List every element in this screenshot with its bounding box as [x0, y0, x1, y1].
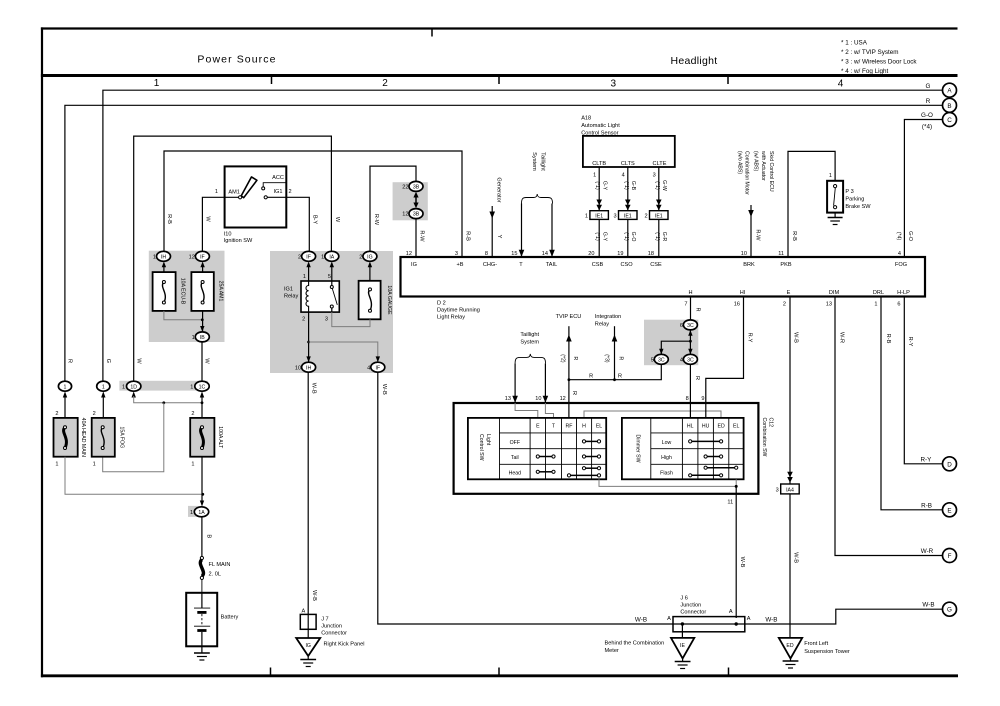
svg-text:A: A	[667, 616, 671, 622]
svg-text:Battery: Battery	[221, 614, 239, 620]
svg-text:BRK: BRK	[743, 262, 755, 268]
svg-text:1: 1	[191, 461, 194, 467]
svg-text:R: R	[589, 373, 593, 379]
svg-text:with Actuator: with Actuator	[760, 151, 766, 181]
svg-text:R-Y: R-Y	[920, 456, 932, 463]
svg-text:HU: HU	[702, 424, 710, 430]
svg-text:R-B: R-B	[166, 214, 172, 224]
svg-text:W: W	[135, 358, 141, 364]
svg-text:F: F	[948, 553, 952, 560]
svg-text:* 2 : w/ TVIP System: * 2 : w/ TVIP System	[841, 49, 899, 56]
svg-text:IB: IB	[200, 335, 205, 341]
svg-text:16: 16	[734, 302, 740, 308]
svg-text:I10: I10	[224, 232, 232, 238]
svg-text:Junction: Junction	[680, 602, 701, 608]
svg-text:Relay: Relay	[284, 293, 299, 299]
svg-text:RF: RF	[566, 424, 573, 430]
svg-text:25A AM1: 25A AM1	[217, 281, 223, 302]
svg-text:2: 2	[783, 302, 786, 308]
svg-text:4: 4	[622, 173, 625, 179]
svg-text:Y: Y	[496, 235, 502, 239]
svg-text:12: 12	[402, 212, 408, 218]
svg-text:IG: IG	[367, 254, 372, 260]
svg-text:R-Y: R-Y	[907, 337, 913, 347]
svg-text:2: 2	[191, 411, 194, 417]
svg-text:W: W	[204, 358, 210, 364]
svg-text:IF: IF	[200, 254, 205, 260]
svg-text:CSB: CSB	[592, 262, 604, 268]
svg-text:13: 13	[826, 302, 832, 308]
svg-text:3: 3	[455, 251, 458, 257]
svg-text:4: 4	[898, 251, 901, 257]
svg-text:OFF: OFF	[510, 440, 520, 446]
svg-text:R-Y: R-Y	[746, 333, 752, 343]
svg-text:Daytime Running: Daytime Running	[437, 308, 480, 314]
svg-text:1: 1	[64, 384, 67, 390]
svg-text:HL: HL	[687, 424, 694, 430]
svg-text:FOG: FOG	[895, 262, 907, 268]
svg-text:Meter: Meter	[605, 648, 619, 654]
svg-text:AM1: AM1	[228, 189, 240, 195]
svg-text:2. 0L: 2. 0L	[209, 572, 221, 578]
svg-text:6: 6	[897, 302, 900, 308]
svg-text:10: 10	[741, 251, 747, 257]
svg-text:R-W: R-W	[373, 214, 379, 226]
svg-text:CSE: CSE	[650, 262, 662, 268]
svg-text:W-R: W-R	[921, 548, 934, 555]
svg-text:5: 5	[328, 274, 331, 280]
svg-text:3: 3	[776, 488, 779, 494]
svg-text:R: R	[572, 357, 578, 361]
svg-text:J 6: J 6	[680, 595, 687, 601]
svg-text:Dimmer SW: Dimmer SW	[635, 435, 641, 463]
svg-text:Generator: Generator	[495, 177, 501, 202]
svg-text:1: 1	[192, 335, 195, 341]
svg-text:G-Y: G-Y	[601, 232, 607, 242]
svg-text:1A: 1A	[198, 510, 205, 516]
svg-text:Behind the Combination: Behind the Combination	[605, 641, 665, 647]
svg-text:Taillight: Taillight	[520, 332, 539, 338]
svg-text:IA: IA	[329, 254, 334, 260]
svg-text:CLTB: CLTB	[592, 161, 606, 167]
svg-text:CLTE: CLTE	[653, 161, 667, 167]
svg-text:R: R	[571, 391, 577, 395]
svg-text:G-O: G-O	[921, 112, 933, 119]
svg-text:(*1): (*1)	[623, 232, 629, 241]
svg-text:(*4): (*4)	[922, 124, 932, 131]
svg-text:IA4: IA4	[786, 488, 794, 494]
svg-text:H: H	[688, 290, 692, 296]
svg-text:(*1): (*1)	[654, 232, 660, 241]
svg-text:4: 4	[367, 365, 370, 371]
svg-text:22: 22	[402, 185, 408, 191]
svg-text:P 3: P 3	[845, 189, 853, 195]
svg-text:(*1): (*1)	[594, 181, 600, 190]
svg-text:(w/o ABS): (w/o ABS)	[736, 151, 742, 174]
svg-text:100A ALT: 100A ALT	[217, 426, 223, 449]
svg-text:B: B	[947, 103, 951, 110]
svg-text:W: W	[205, 216, 211, 222]
svg-text:1: 1	[585, 213, 588, 219]
svg-text:1: 1	[190, 384, 193, 390]
svg-text:CHG-: CHG-	[483, 262, 497, 268]
svg-text:R: R	[618, 373, 622, 379]
svg-text:Taillight: Taillight	[539, 152, 545, 171]
svg-text:FL MAIN: FL MAIN	[209, 562, 231, 568]
svg-text:B: B	[206, 534, 212, 538]
svg-text:A: A	[747, 616, 751, 622]
svg-text:W-B: W-B	[739, 557, 745, 568]
svg-text:Connector: Connector	[680, 609, 706, 615]
svg-text:IE: IE	[680, 643, 685, 649]
svg-text:H: H	[582, 424, 586, 430]
svg-text:* 4 : w/ Fog Light: * 4 : w/ Fog Light	[841, 68, 889, 75]
svg-text:9: 9	[701, 396, 704, 402]
svg-text:Headlight: Headlight	[670, 55, 717, 67]
svg-text:R-W: R-W	[755, 229, 761, 241]
svg-text:Skid Control ECU: Skid Control ECU	[768, 151, 774, 192]
svg-text:* 3 : w/ Wireless Door Lock: * 3 : w/ Wireless Door Lock	[841, 59, 917, 66]
svg-text:E: E	[536, 424, 540, 430]
svg-text:G-O: G-O	[630, 232, 636, 242]
svg-text:W-B: W-B	[311, 590, 317, 601]
svg-text:12: 12	[560, 396, 566, 402]
svg-text:D 2: D 2	[437, 301, 446, 307]
svg-text:G: G	[926, 83, 931, 90]
svg-text:19: 19	[617, 251, 623, 257]
svg-text:R-B: R-B	[791, 231, 797, 241]
svg-text:Combination SW: Combination SW	[761, 418, 767, 457]
svg-text:PKB: PKB	[780, 262, 791, 268]
svg-text:8: 8	[485, 251, 488, 257]
svg-text:2: 2	[359, 254, 362, 260]
svg-text:Junction: Junction	[321, 624, 342, 630]
svg-text:TAIL: TAIL	[546, 262, 557, 268]
svg-text:1: 1	[593, 173, 596, 179]
svg-text:(*4): (*4)	[895, 232, 901, 241]
svg-text:Flash: Flash	[660, 470, 673, 476]
svg-text:W-B: W-B	[765, 616, 777, 623]
svg-text:3: 3	[613, 213, 616, 219]
svg-text:3: 3	[325, 317, 328, 323]
svg-text:A18: A18	[581, 116, 591, 122]
svg-text:System: System	[520, 340, 539, 346]
svg-text:(*3): (*3)	[604, 354, 610, 363]
svg-text:D: D	[947, 461, 952, 468]
svg-text:G-W: G-W	[661, 180, 667, 191]
svg-text:G-Y: G-Y	[601, 181, 607, 191]
svg-text:IG: IG	[411, 262, 417, 268]
svg-text:20: 20	[588, 251, 594, 257]
svg-text:7: 7	[684, 302, 687, 308]
svg-text:2: 2	[93, 411, 96, 417]
svg-text:Suspension Tower: Suspension Tower	[804, 649, 850, 655]
svg-text:3B: 3B	[413, 212, 420, 218]
svg-text:EL: EL	[596, 424, 602, 430]
svg-text:C: C	[947, 117, 952, 124]
svg-text:Right Kick Panel: Right Kick Panel	[324, 642, 365, 648]
svg-text:R-W: R-W	[419, 230, 425, 242]
svg-text:W: W	[334, 217, 340, 223]
svg-text:E: E	[787, 290, 791, 296]
svg-text:12: 12	[406, 251, 412, 257]
svg-text:1: 1	[874, 302, 877, 308]
svg-text:15A FOG: 15A FOG	[118, 426, 124, 448]
svg-text:1: 1	[122, 384, 125, 390]
svg-text:10A GAUGE: 10A GAUGE	[386, 285, 392, 315]
svg-text:1: 1	[153, 254, 156, 260]
svg-text:(w/ ABS): (w/ ABS)	[752, 151, 758, 171]
svg-text:R-B: R-B	[885, 334, 891, 344]
svg-text:Low: Low	[662, 440, 672, 446]
svg-text:2: 2	[289, 189, 292, 195]
svg-text:IF: IF	[306, 254, 311, 260]
svg-text:Combination Motor: Combination Motor	[744, 151, 750, 195]
svg-text:W-B: W-B	[793, 332, 799, 343]
svg-text:J 7: J 7	[321, 617, 328, 623]
svg-text:IG: IG	[305, 643, 310, 649]
svg-text:40A HEAD MAIN: 40A HEAD MAIN	[80, 418, 86, 457]
svg-text:Light: Light	[485, 434, 491, 446]
svg-text:T: T	[519, 262, 523, 268]
svg-text:IE1: IE1	[595, 213, 603, 219]
svg-text:10: 10	[295, 365, 301, 371]
svg-text:Connector: Connector	[321, 631, 347, 637]
svg-text:1C: 1C	[199, 384, 206, 390]
svg-text:1D: 1D	[130, 384, 137, 390]
svg-text:W-B: W-B	[793, 552, 799, 563]
svg-text:ED: ED	[786, 643, 793, 649]
svg-text:14: 14	[542, 251, 548, 257]
svg-text:(*2): (*2)	[560, 354, 566, 363]
svg-text:12: 12	[189, 254, 195, 260]
svg-text:DRL: DRL	[873, 290, 884, 296]
svg-text:11: 11	[778, 251, 784, 257]
svg-text:R-B: R-B	[921, 502, 932, 509]
svg-text:Integration: Integration	[595, 314, 621, 320]
svg-text:DIM: DIM	[829, 290, 840, 296]
svg-text:CSO: CSO	[620, 262, 633, 268]
svg-text:2: 2	[302, 317, 305, 323]
svg-text:High: High	[661, 455, 672, 461]
svg-text:Brake SW: Brake SW	[845, 204, 871, 210]
svg-text:Ignition SW: Ignition SW	[224, 238, 253, 244]
svg-text:4: 4	[838, 79, 844, 90]
svg-text:1: 1	[303, 274, 306, 280]
svg-text:15: 15	[511, 251, 517, 257]
svg-text:2: 2	[298, 254, 301, 260]
svg-text:1: 1	[154, 78, 160, 89]
svg-text:2: 2	[644, 213, 647, 219]
svg-text:C12: C12	[768, 418, 774, 428]
svg-text:W-B: W-B	[381, 384, 387, 395]
svg-text:IE1: IE1	[655, 213, 663, 219]
svg-text:10: 10	[535, 396, 541, 402]
svg-text:8: 8	[686, 396, 689, 402]
svg-text:Light Relay: Light Relay	[437, 315, 465, 321]
svg-text:E: E	[947, 507, 951, 514]
svg-text:ACC: ACC	[272, 175, 284, 181]
svg-text:Control SW: Control SW	[478, 434, 484, 461]
svg-text:2: 2	[382, 78, 388, 89]
svg-text:11: 11	[727, 500, 733, 506]
svg-text:R: R	[694, 307, 700, 311]
svg-text:R: R	[67, 359, 73, 363]
svg-text:+B: +B	[457, 262, 464, 268]
svg-text:TVIP ECU: TVIP ECU	[556, 314, 582, 320]
svg-text:Tail: Tail	[511, 455, 519, 461]
svg-text:G-B: G-B	[630, 181, 636, 191]
svg-text:3: 3	[653, 173, 656, 179]
svg-text:1: 1	[829, 173, 832, 179]
svg-text:W-B: W-B	[635, 616, 647, 623]
svg-text:IE1: IE1	[624, 213, 632, 219]
svg-text:R: R	[617, 357, 623, 361]
svg-text:Parking: Parking	[845, 197, 864, 203]
svg-text:3B: 3B	[413, 185, 420, 191]
svg-text:2: 2	[55, 411, 58, 417]
svg-text:W-R: W-R	[839, 332, 845, 343]
svg-text:EL: EL	[733, 424, 739, 430]
svg-text:R: R	[926, 98, 931, 105]
svg-text:IG1: IG1	[274, 189, 283, 195]
svg-text:1: 1	[321, 254, 324, 260]
svg-text:Relay: Relay	[595, 321, 610, 327]
svg-text:(*1): (*1)	[623, 181, 629, 190]
svg-text:1: 1	[93, 461, 96, 467]
svg-text:G: G	[947, 607, 952, 614]
svg-text:HI: HI	[740, 290, 746, 296]
svg-text:(*1): (*1)	[594, 232, 600, 241]
svg-text:3C: 3C	[658, 357, 665, 363]
svg-text:Automatic Light: Automatic Light	[581, 123, 620, 129]
svg-text:1: 1	[215, 189, 218, 195]
svg-text:W-B: W-B	[311, 383, 317, 394]
svg-text:Head: Head	[509, 470, 522, 476]
svg-text:1: 1	[55, 461, 58, 467]
svg-text:IH: IH	[161, 254, 166, 260]
svg-text:System: System	[531, 152, 537, 171]
svg-text:Power Source: Power Source	[197, 54, 276, 66]
svg-text:18: 18	[648, 251, 654, 257]
svg-text:G-R: G-R	[661, 232, 667, 242]
svg-text:B-Y: B-Y	[312, 215, 318, 225]
svg-text:IG1: IG1	[284, 286, 293, 292]
svg-text:A: A	[729, 609, 733, 615]
svg-text:5: 5	[651, 357, 654, 363]
svg-text:* 1 : USA: * 1 : USA	[841, 40, 868, 47]
svg-text:W-B: W-B	[922, 602, 934, 609]
svg-text:ED: ED	[717, 424, 724, 430]
svg-text:CLTS: CLTS	[621, 161, 635, 167]
svg-text:(*1): (*1)	[654, 181, 660, 190]
svg-text:G-O: G-O	[907, 231, 913, 241]
svg-text:IF: IF	[375, 365, 380, 371]
svg-text:4: 4	[680, 357, 683, 363]
svg-text:R-B: R-B	[465, 231, 471, 241]
svg-text:1: 1	[190, 510, 193, 516]
svg-text:6: 6	[680, 323, 683, 329]
svg-text:13: 13	[505, 396, 511, 402]
svg-text:1: 1	[102, 384, 105, 390]
svg-text:IH: IH	[306, 365, 311, 371]
svg-text:G: G	[105, 359, 111, 363]
svg-text:3C: 3C	[687, 323, 694, 329]
svg-text:3: 3	[611, 79, 617, 90]
svg-text:H-LP: H-LP	[897, 290, 910, 296]
svg-text:Front Left: Front Left	[804, 641, 828, 647]
svg-text:3C: 3C	[687, 357, 694, 363]
svg-text:R: R	[694, 376, 700, 380]
svg-text:10A ECU-B: 10A ECU-B	[180, 278, 186, 305]
